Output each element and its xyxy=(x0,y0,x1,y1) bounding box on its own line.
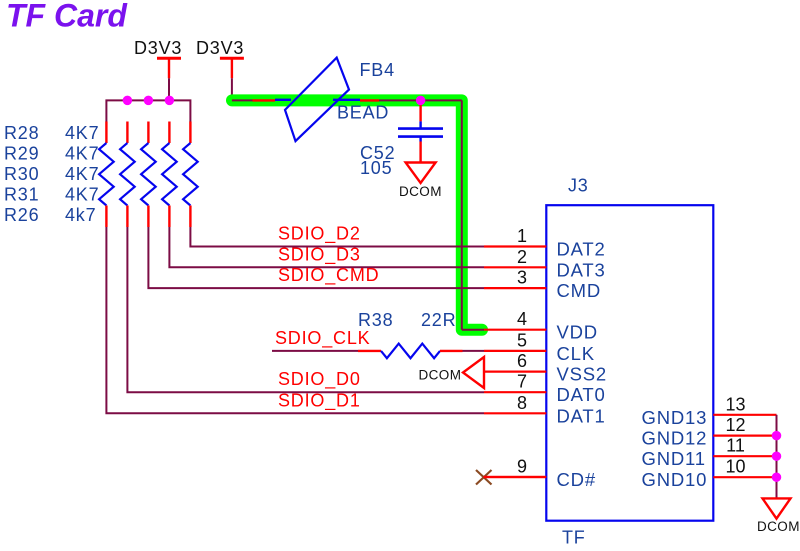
svg-text:BEAD: BEAD xyxy=(337,103,389,123)
resistor pull-up #1 bottom lead xyxy=(105,206,107,228)
ferrite bead FB4 right blue segment xyxy=(333,99,360,101)
svg-text:CMD: CMD xyxy=(557,280,602,301)
svg-text:DCOM: DCOM xyxy=(757,519,800,534)
capacitor C52 bottom lead xyxy=(419,142,421,163)
ground DCOM under C52 xyxy=(406,163,436,184)
resistor pull-up #1 body xyxy=(99,143,114,206)
power symbol D3V3 #2 bar xyxy=(220,57,244,60)
resistor pull-up #2 body xyxy=(120,143,135,206)
pin 5 lead xyxy=(484,350,546,352)
svg-text:4k7: 4k7 xyxy=(65,205,96,225)
wire D3V3 #1 to bus xyxy=(168,78,170,100)
svg-text:4K7: 4K7 xyxy=(65,143,99,163)
svg-text:SDIO_D2: SDIO_D2 xyxy=(278,224,361,245)
wire bead to corner xyxy=(379,99,462,101)
svg-text:VSS2: VSS2 xyxy=(557,364,608,385)
pin 3 lead xyxy=(484,287,546,289)
power symbol D3V3 #2 stub xyxy=(231,58,233,78)
wire SDIO_D3 wire to pin 2 xyxy=(169,227,484,267)
pin 11 lead xyxy=(713,455,776,457)
pin 9 lead xyxy=(484,476,546,478)
svg-text:DAT0: DAT0 xyxy=(557,384,606,405)
svg-text:SDIO_CLK: SDIO_CLK xyxy=(275,328,370,349)
svg-text:4K7: 4K7 xyxy=(65,164,99,184)
svg-text:1: 1 xyxy=(517,226,527,246)
svg-text:105: 105 xyxy=(360,158,392,178)
svg-text:DAT2: DAT2 xyxy=(557,239,606,260)
resistor pull-up #1 top lead xyxy=(105,122,107,144)
svg-text:R28: R28 xyxy=(4,123,39,143)
junction node dot 2 xyxy=(144,96,154,106)
ferrite bead FB4 left lead xyxy=(253,99,276,101)
svg-text:6: 6 xyxy=(517,351,527,371)
ferrite bead FB4 left blue segment xyxy=(275,99,291,101)
highlighted VDD net (green overlay) xyxy=(232,100,482,329)
pin 6 lead xyxy=(484,371,546,373)
wire pull-up bus xyxy=(106,100,190,122)
junction dot GND10 xyxy=(772,472,782,482)
svg-text:DAT1: DAT1 xyxy=(557,405,606,426)
resistor pull-up #4 body xyxy=(162,143,177,206)
pin 2 lead xyxy=(484,266,546,268)
pin 1 lead xyxy=(484,245,546,247)
svg-text:GND13: GND13 xyxy=(642,407,708,428)
wire VDD to pin 4 xyxy=(462,329,484,331)
svg-text:R38: R38 xyxy=(358,310,393,330)
svg-text:TF Card: TF Card xyxy=(6,0,128,34)
power symbol D3V3 #1 bar xyxy=(157,57,181,60)
ground DCOM bottom right xyxy=(763,498,791,518)
svg-text:4K7: 4K7 xyxy=(65,123,99,143)
connector J3 body xyxy=(546,205,713,521)
resistor pull-up #4 bottom lead xyxy=(168,206,170,228)
wire R38 to pin 5 xyxy=(463,350,485,352)
svg-text:SDIO_D3: SDIO_D3 xyxy=(278,244,361,265)
capacitor C52 top lead xyxy=(419,100,421,121)
svg-text:TF: TF xyxy=(562,528,586,548)
resistor pull-up #2 top lead xyxy=(126,122,128,144)
svg-text:CLK: CLK xyxy=(557,343,595,364)
wire GND bus vertical xyxy=(776,415,778,499)
resistor pull-up #3 body xyxy=(141,143,156,206)
junction node dot at C52 tap xyxy=(416,96,426,106)
wire SDIO_CLK stub xyxy=(272,350,358,352)
pin 8 lead xyxy=(484,412,546,414)
pin 4 lead xyxy=(484,329,546,331)
svg-text:SDIO_CMD: SDIO_CMD xyxy=(278,265,379,286)
wire SDIO_D0 wire to pin 7 xyxy=(127,227,484,392)
resistor pull-up #4 top lead xyxy=(168,122,170,144)
svg-text:SDIO_D0: SDIO_D0 xyxy=(278,369,361,390)
pin 13 lead xyxy=(713,414,776,416)
capacitor C52 top plate xyxy=(398,127,443,130)
svg-text:R29: R29 xyxy=(4,143,39,163)
svg-text:R31: R31 xyxy=(4,184,39,204)
svg-text:CD#: CD# xyxy=(557,469,596,490)
pin 12 lead xyxy=(713,435,776,437)
capacitor C52 bottom blue stub xyxy=(419,138,421,142)
wire SDIO_D1 wire to pin 8 xyxy=(106,227,484,413)
resistor R38 body xyxy=(381,344,440,359)
svg-text:D3V3: D3V3 xyxy=(196,38,244,58)
svg-text:7: 7 xyxy=(517,372,527,392)
resistor pull-up #3 top lead xyxy=(147,122,149,144)
svg-text:J3: J3 xyxy=(568,176,589,196)
svg-text:13: 13 xyxy=(725,394,745,414)
resistor pull-up #5 bottom lead xyxy=(189,206,191,228)
wire SDIO_CMD wire to pin 3 xyxy=(148,227,484,288)
resistor pull-up #5 top lead xyxy=(189,122,191,144)
resistor pull-up #3 bottom lead xyxy=(147,206,149,228)
svg-text:3: 3 xyxy=(517,268,527,288)
svg-text:DAT3: DAT3 xyxy=(557,259,606,280)
svg-text:DCOM: DCOM xyxy=(419,368,462,383)
svg-text:12: 12 xyxy=(725,415,745,435)
resistor R38 left lead xyxy=(358,350,381,352)
ferrite bead FB4 right lead xyxy=(360,99,379,101)
svg-text:5: 5 xyxy=(517,330,527,350)
resistor pull-up #5 body xyxy=(183,143,198,206)
svg-text:R26: R26 xyxy=(4,205,39,225)
ferrite bead FB4 body xyxy=(285,58,349,142)
svg-text:2: 2 xyxy=(517,247,527,267)
wire D3V3 #2 down to VDD net xyxy=(231,78,233,101)
ferrite bead FB4 left wire xyxy=(232,99,253,101)
junction dot GND12 xyxy=(772,431,782,441)
svg-text:GND12: GND12 xyxy=(642,428,708,449)
junction dot GND11 xyxy=(772,451,782,461)
svg-text:9: 9 xyxy=(517,457,527,477)
wire SDIO_D2 wire to pin 1 xyxy=(190,227,484,247)
svg-text:SDIO_D1: SDIO_D1 xyxy=(278,390,361,411)
power symbol D3V3 #1 stub xyxy=(168,58,170,78)
svg-text:VDD: VDD xyxy=(557,322,598,343)
junction node dot 1 xyxy=(123,96,132,106)
svg-text:8: 8 xyxy=(517,393,527,413)
svg-text:4K7: 4K7 xyxy=(65,184,99,204)
pin 7 lead xyxy=(484,391,546,393)
no-connect X on CD# xyxy=(476,470,492,485)
svg-text:D3V3: D3V3 xyxy=(134,38,182,58)
resistor pull-up #2 bottom lead xyxy=(126,206,128,228)
svg-text:4: 4 xyxy=(517,309,527,329)
pin 10 lead xyxy=(713,476,776,478)
junction node dot 3 xyxy=(165,96,175,106)
svg-text:22R: 22R xyxy=(421,310,456,330)
svg-text:GND11: GND11 xyxy=(642,448,706,469)
svg-text:FB4: FB4 xyxy=(360,60,395,80)
ground DCOM arrow at pin 6 (VSS2) xyxy=(463,357,484,388)
resistor R38 right lead xyxy=(440,350,463,352)
svg-text:10: 10 xyxy=(725,457,745,477)
capacitor C52 top blue stub xyxy=(419,121,421,127)
capacitor C52 bottom plate xyxy=(398,135,443,138)
svg-text:R30: R30 xyxy=(4,164,39,184)
svg-text:GND10: GND10 xyxy=(642,469,708,490)
svg-text:DCOM: DCOM xyxy=(399,184,442,199)
svg-text:11: 11 xyxy=(726,436,745,456)
wire CD# to pin 9 xyxy=(484,476,547,478)
wire VDD vertical drop xyxy=(461,100,463,329)
